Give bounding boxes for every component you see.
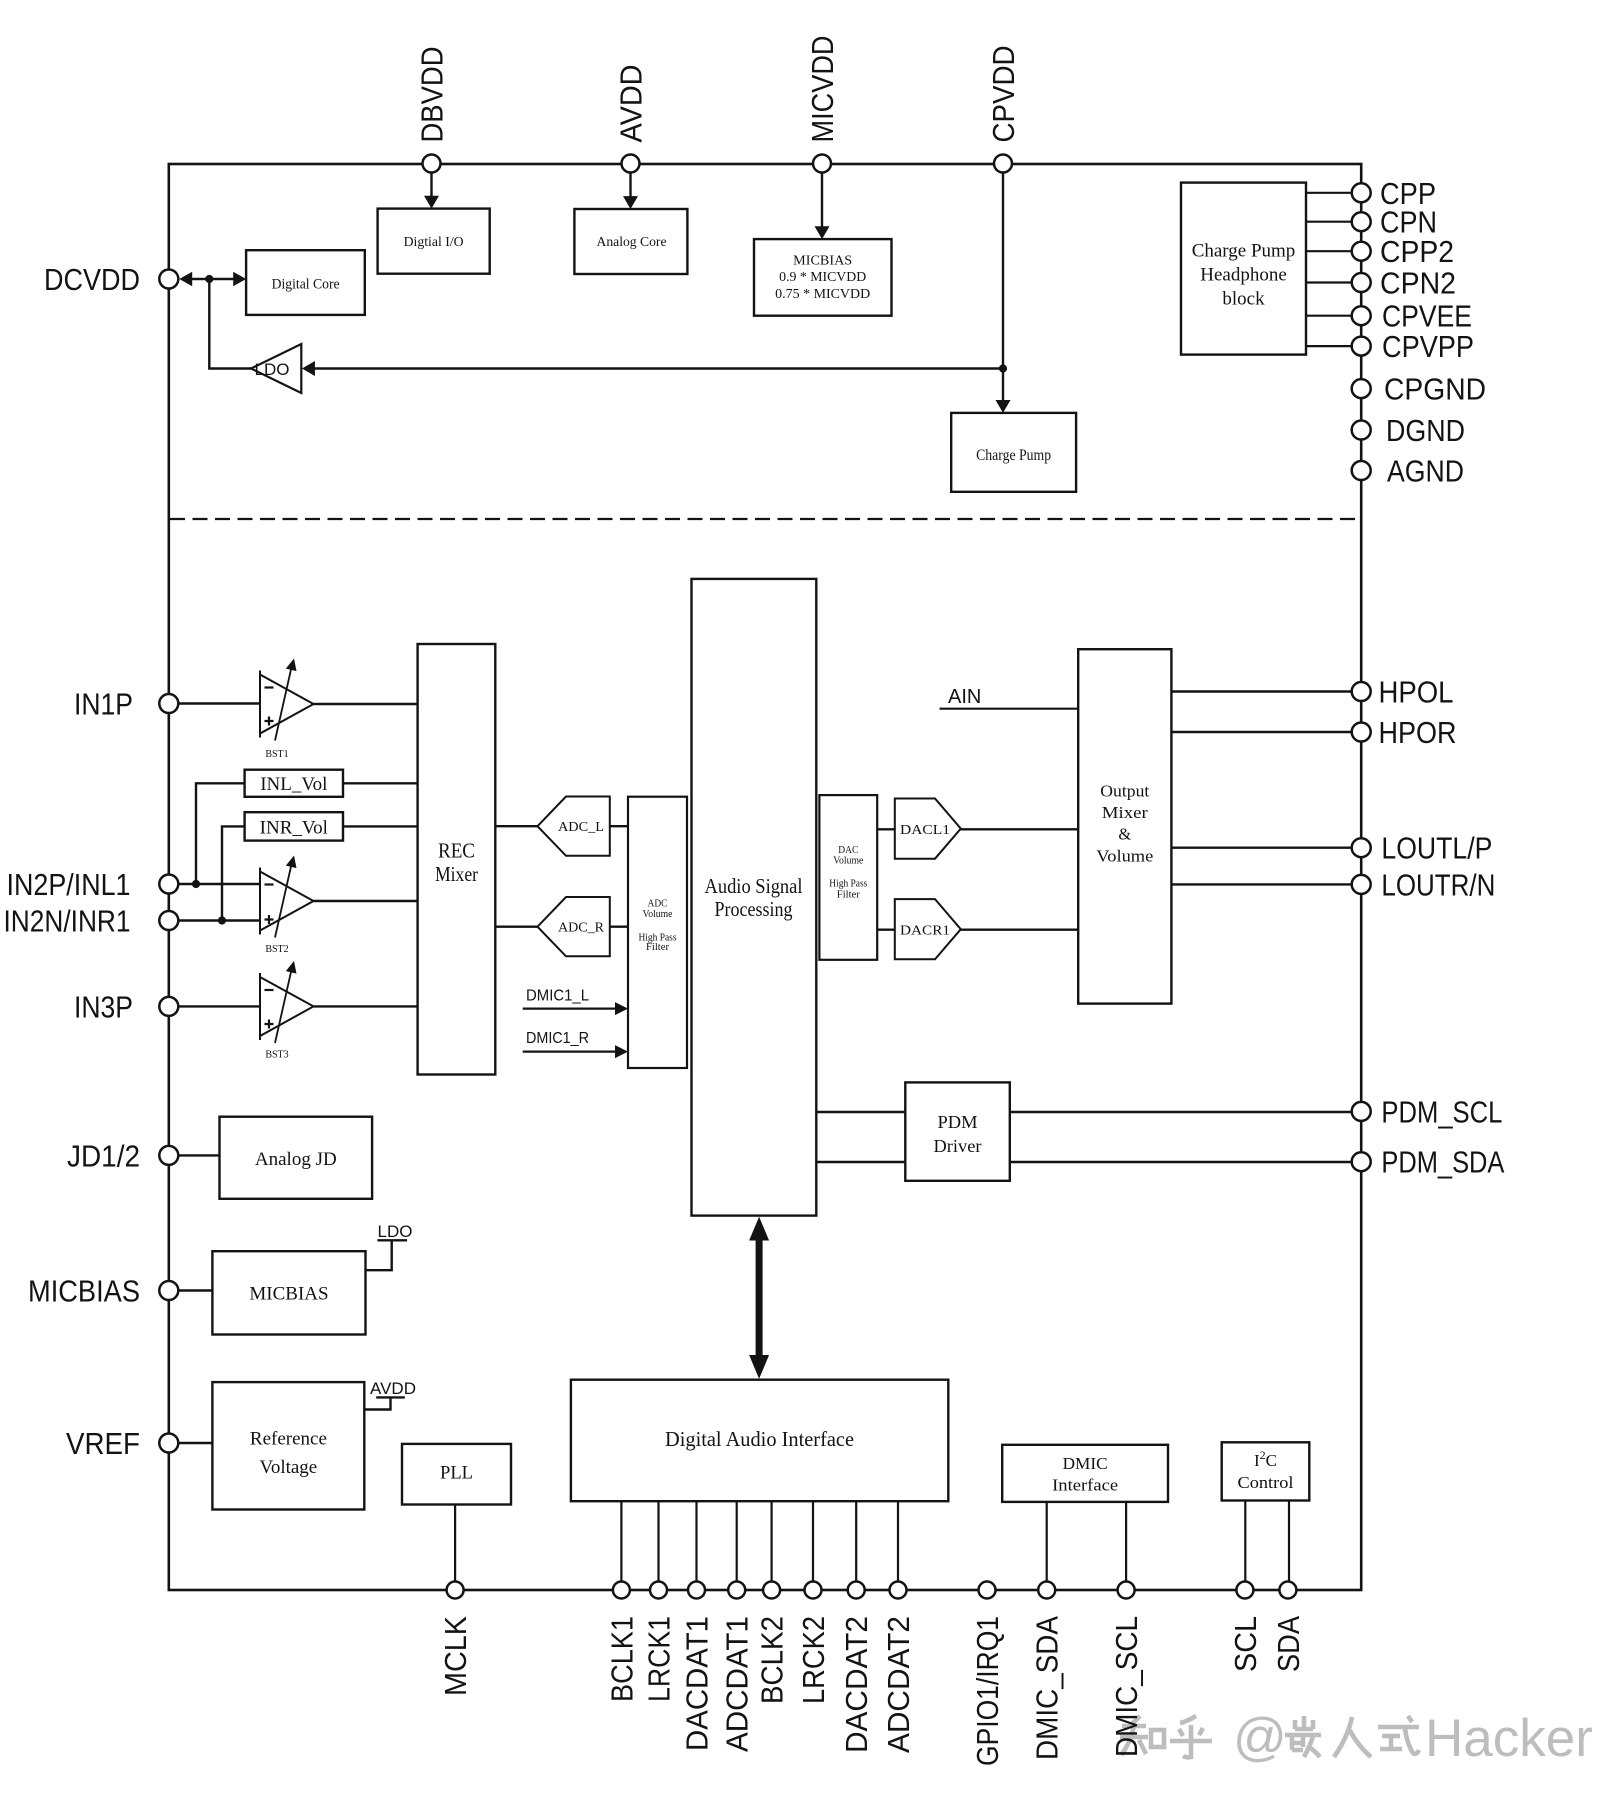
- svg-text:DACDAT1: DACDAT1: [680, 1616, 715, 1751]
- svg-text:Digital Core: Digital Core: [272, 277, 340, 293]
- svg-text:GPIO1/IRQ1: GPIO1/IRQ1: [970, 1616, 1005, 1766]
- svg-text:Audio Signal: Audio Signal: [705, 874, 803, 898]
- svg-text:MICBIAS: MICBIAS: [28, 1274, 140, 1309]
- svg-text:BST1: BST1: [265, 749, 288, 760]
- block Audio Signal Processing: [692, 579, 817, 1216]
- wire INR_Vol to REC Mixer: [343, 825, 418, 827]
- svg-text:DMIC_SDA: DMIC_SDA: [1030, 1616, 1065, 1760]
- wire DMIC Interface to DMIC_SCL: [1125, 1502, 1127, 1581]
- wire PDM Driver to PDM_SDA: [1010, 1161, 1352, 1163]
- svg-text:Reference: Reference: [250, 1429, 327, 1450]
- pin ADCDAT1: [720, 1582, 755, 1753]
- svg-text:PDM: PDM: [938, 1112, 978, 1132]
- svg-text:INL_Vol: INL_Vol: [260, 774, 327, 795]
- svg-text:VREF: VREF: [66, 1426, 140, 1461]
- svg-text:BCLK2: BCLK2: [755, 1616, 790, 1704]
- pin CPVDD: [986, 46, 1021, 173]
- svg-text:AIN: AIN: [948, 686, 981, 708]
- pin JD1/2: [67, 1138, 178, 1173]
- wire DAI to ADCDAT1: [736, 1501, 738, 1581]
- svg-text:Driver: Driver: [934, 1136, 982, 1156]
- bus ASP to DAI double arrow: [749, 1217, 769, 1379]
- svg-text:LRCK2: LRCK2: [796, 1616, 831, 1704]
- wire REC Mixer to ADC_R: [495, 926, 537, 928]
- svg-text:AVDD: AVDD: [370, 1379, 416, 1398]
- svg-text:Output: Output: [1100, 782, 1149, 801]
- svg-text:PDM_SDA: PDM_SDA: [1381, 1145, 1504, 1180]
- block Charge Pump: [951, 413, 1076, 492]
- block Output Mixer and Volume: [1078, 649, 1171, 1003]
- svg-text:DMIC1_L: DMIC1_L: [526, 987, 589, 1004]
- pin VREF: [66, 1426, 178, 1461]
- svg-text:DMIC_SCL: DMIC_SCL: [1109, 1616, 1144, 1757]
- svg-text:IN3P: IN3P: [74, 989, 133, 1024]
- svg-text:MICBIAS: MICBIAS: [249, 1284, 328, 1305]
- wire I2C Control to SDA: [1288, 1501, 1290, 1582]
- svg-text:Control: Control: [1238, 1473, 1294, 1492]
- svg-text:MCLK: MCLK: [438, 1616, 473, 1696]
- svg-text:SDA: SDA: [1271, 1616, 1306, 1672]
- wire DMIC Interface to DMIC_SDA: [1046, 1502, 1048, 1581]
- wire DMIC1_R into ADC Volume: [523, 1045, 628, 1058]
- svg-text:HPOR: HPOR: [1379, 715, 1457, 750]
- svg-text:CPN2: CPN2: [1380, 266, 1456, 301]
- wire Output Mixer to LOUTR/N: [1171, 883, 1352, 885]
- wire INR_Vol to IN2N node: [222, 826, 245, 920]
- gain INL_Vol: [245, 770, 343, 797]
- wire AIN to Output Mixer: [940, 708, 1079, 710]
- wire IN3P to BST3: [178, 1005, 260, 1007]
- pin LOUTL/P: [1352, 831, 1493, 866]
- supply LDO rail on MICBIAS: [366, 1222, 413, 1270]
- block I2C Control: [1222, 1442, 1310, 1500]
- block DMIC Interface: [1002, 1445, 1168, 1502]
- svg-text:0.75 * MICVDD: 0.75 * MICVDD: [775, 286, 870, 301]
- pin IN2N/INR1: [4, 904, 179, 939]
- block REC Mixer: [418, 644, 496, 1075]
- amplifier BST3: [260, 961, 314, 1061]
- digital/analog dashed separator: [170, 518, 1360, 520]
- wire BST1 to REC Mixer: [314, 703, 418, 705]
- pin DCVDD: [44, 262, 178, 297]
- wire Output Mixer to LOUTL/P: [1171, 847, 1352, 849]
- wire PLL to MCLK: [454, 1505, 456, 1582]
- block PLL: [402, 1444, 511, 1505]
- svg-text:Mixer: Mixer: [1102, 803, 1149, 822]
- svg-text:MICBIAS: MICBIAS: [793, 253, 852, 268]
- svg-text:0.9 * MICVDD: 0.9 * MICVDD: [779, 269, 866, 284]
- svg-text:ADCDAT2: ADCDAT2: [881, 1616, 916, 1753]
- converter ADC_R: [538, 897, 610, 956]
- svg-text:BCLK1: BCLK1: [604, 1616, 639, 1702]
- block DAC Volume High Pass Filter: [819, 795, 877, 960]
- wire DAI to LRCK2: [812, 1501, 814, 1581]
- block MICBIAS regulator: [754, 239, 892, 316]
- svg-text:CPGND: CPGND: [1384, 372, 1486, 407]
- wire CPVDD down to Charge Pump with arrowhead: [996, 173, 1011, 413]
- svg-text:Digtial I/O: Digtial I/O: [404, 234, 464, 249]
- wire CPN2: [1306, 281, 1352, 283]
- svg-text:CPVDD: CPVDD: [986, 46, 1021, 143]
- wire LDO output to DCVDD node: [209, 279, 251, 369]
- svg-text:LDO: LDO: [255, 360, 290, 379]
- chip boundary: [169, 164, 1361, 1590]
- pin CPP2: [1352, 234, 1454, 269]
- svg-text:DMIC1_R: DMIC1_R: [526, 1030, 589, 1047]
- wire DCVDD to Digital Core double arrow: [179, 272, 246, 286]
- svg-text:Voltage: Voltage: [260, 1457, 318, 1478]
- pin DMIC_SDA: [1030, 1582, 1065, 1761]
- wire CPVEE: [1306, 315, 1352, 317]
- wire BST2 to REC Mixer: [314, 900, 418, 902]
- wire Output Mixer to HPOL: [1171, 690, 1352, 692]
- svg-text:PLL: PLL: [440, 1463, 473, 1484]
- svg-text:I2C: I2C: [1254, 1448, 1277, 1470]
- converter DACR1: [895, 899, 961, 959]
- pin CPN2: [1352, 266, 1456, 301]
- junction DCVDD/LDO output: [205, 275, 213, 283]
- LDO regulator: [251, 344, 301, 393]
- svg-text:High Pass: High Pass: [829, 879, 867, 890]
- wire DAI to BCLK2: [770, 1501, 772, 1581]
- pin LRCK1: [642, 1582, 677, 1703]
- svg-text:@: @: [1233, 1708, 1287, 1767]
- svg-text:HPOL: HPOL: [1379, 675, 1454, 710]
- svg-text:DMIC: DMIC: [1063, 1454, 1108, 1473]
- wire ASP to PDM Driver lower: [816, 1161, 905, 1163]
- pin LOUTR/N: [1352, 867, 1496, 902]
- svg-text:ADCDAT1: ADCDAT1: [720, 1616, 755, 1752]
- svg-text:DACDAT2: DACDAT2: [839, 1616, 874, 1753]
- wire MICBIAS pin to block: [178, 1289, 212, 1291]
- wire CPN: [1306, 221, 1352, 223]
- wire JD1/2 to Analog JD: [178, 1154, 219, 1156]
- watermark: [1120, 1716, 1419, 1757]
- block PDM Driver: [905, 1082, 1010, 1180]
- wire DAC Volume to DACR1: [877, 929, 895, 931]
- svg-text:block: block: [1222, 288, 1265, 309]
- svg-text:Analog Core: Analog Core: [597, 234, 667, 249]
- block Digtial I/O: [378, 209, 490, 274]
- svg-text:DACL1: DACL1: [900, 822, 950, 837]
- svg-text:ADC_L: ADC_L: [558, 819, 604, 834]
- converter DACL1: [895, 799, 961, 859]
- pin LRCK2: [796, 1582, 831, 1705]
- svg-text:Charge Pump: Charge Pump: [1192, 240, 1296, 261]
- converter ADC_L: [538, 797, 610, 856]
- block Analog Core: [574, 209, 687, 274]
- svg-text:IN2P/INL1: IN2P/INL1: [7, 867, 131, 902]
- svg-text:Filter: Filter: [837, 889, 861, 900]
- wire DACR1 to Output Mixer: [960, 929, 1079, 931]
- svg-text:DBVDD: DBVDD: [415, 47, 450, 143]
- junction IN2N/INR_Vol: [218, 916, 226, 924]
- wire IN2N to BST2 plus: [178, 919, 260, 921]
- svg-text:BST2: BST2: [265, 944, 288, 955]
- wire CPP2: [1306, 250, 1352, 252]
- svg-text:BST3: BST3: [265, 1050, 288, 1061]
- junction IN2P/INL_Vol: [192, 880, 200, 888]
- wire DBVDD to Digital I/O with arrowhead: [424, 173, 439, 209]
- wire INL_Vol to IN2P node: [196, 783, 245, 884]
- svg-text:Mixer: Mixer: [435, 862, 478, 886]
- pin IN1P: [74, 687, 178, 722]
- pin DACDAT1: [680, 1582, 715, 1752]
- svg-text:ADC_R: ADC_R: [558, 920, 604, 935]
- svg-text:Analog JD: Analog JD: [255, 1149, 337, 1170]
- svg-text:Filter: Filter: [646, 942, 670, 953]
- wire I2C Control to SCL: [1244, 1501, 1246, 1582]
- pin MCLK: [438, 1582, 473, 1697]
- svg-text:&: &: [1118, 825, 1131, 844]
- wire DMIC1_L into ADC Volume: [523, 1002, 628, 1015]
- wire VREF to Reference Voltage: [178, 1442, 212, 1444]
- svg-text:SCL: SCL: [1228, 1616, 1263, 1672]
- wire DACL1 to Output Mixer: [960, 828, 1079, 830]
- junction CPVDD/LDO: [999, 364, 1007, 372]
- svg-text:Headphone: Headphone: [1200, 264, 1287, 285]
- svg-text:IN2N/INR1: IN2N/INR1: [4, 904, 131, 939]
- pin DMIC_SCL: [1109, 1582, 1144, 1758]
- pin CPP: [1352, 176, 1436, 211]
- svg-text:Digital Audio Interface: Digital Audio Interface: [665, 1427, 854, 1451]
- svg-text:Charge Pump: Charge Pump: [976, 447, 1051, 464]
- pin ADCDAT2: [881, 1582, 916, 1754]
- svg-text:Hacker: Hacker: [1425, 1709, 1593, 1768]
- wire IN2P to BST2 minus: [178, 883, 260, 885]
- block Digital Audio Interface: [571, 1380, 948, 1502]
- svg-text:Volume: Volume: [833, 856, 864, 867]
- wire DAI to DACDAT1: [695, 1501, 697, 1581]
- svg-text:REC: REC: [438, 838, 475, 862]
- wire CPP: [1306, 192, 1352, 194]
- pin CPN: [1352, 205, 1437, 240]
- pin AGND: [1352, 454, 1464, 489]
- svg-text:JD1/2: JD1/2: [67, 1138, 140, 1173]
- svg-text:LDO: LDO: [378, 1222, 413, 1241]
- wire CPVDD to LDO with arrowhead: [302, 361, 1003, 376]
- pin GPIO1/IRQ1: [970, 1582, 1005, 1767]
- amplifier BST1: [260, 659, 314, 761]
- pin DBVDD: [415, 47, 450, 173]
- wire IN1P to BST1: [178, 702, 260, 704]
- wire Output Mixer to HPOR: [1171, 731, 1352, 733]
- amplifier BST2: [260, 856, 314, 956]
- wire DAI to LRCK1: [657, 1501, 659, 1581]
- svg-text:AGND: AGND: [1387, 454, 1464, 489]
- svg-text:IN1P: IN1P: [74, 687, 133, 722]
- svg-text:DAC: DAC: [838, 845, 858, 856]
- pin MICBIAS: [28, 1274, 178, 1309]
- pin IN3P: [74, 989, 178, 1024]
- pin HPOL: [1352, 675, 1454, 710]
- pin DACDAT2: [839, 1582, 874, 1754]
- wire INL_Vol to REC Mixer: [343, 782, 418, 784]
- svg-text:AVDD: AVDD: [614, 65, 649, 143]
- block Digital Core: [246, 250, 365, 315]
- block Charge Pump Headphone: [1181, 183, 1306, 355]
- svg-text:LRCK1: LRCK1: [642, 1616, 677, 1702]
- block Analog JD: [220, 1117, 373, 1199]
- svg-text:DGND: DGND: [1386, 413, 1465, 448]
- wire ASP to PDM Driver upper: [816, 1111, 905, 1113]
- pin CPVPP: [1352, 329, 1474, 364]
- pin PDM_SCL: [1352, 1094, 1503, 1129]
- svg-text:Processing: Processing: [715, 897, 793, 921]
- supply AVDD rail on Reference Voltage: [364, 1379, 416, 1410]
- svg-text:INR_Vol: INR_Vol: [260, 818, 328, 839]
- svg-text:CPVPP: CPVPP: [1382, 329, 1474, 364]
- block Reference Voltage: [212, 1382, 364, 1509]
- svg-text:LOUTR/N: LOUTR/N: [1381, 867, 1495, 902]
- wire PDM Driver to PDM_SCL: [1010, 1111, 1352, 1113]
- svg-text:PDM_SCL: PDM_SCL: [1381, 1094, 1502, 1129]
- pin MICVDD: [805, 36, 840, 173]
- pin SCL: [1228, 1582, 1263, 1673]
- wire AVDD to Analog Core with arrowhead: [623, 173, 638, 210]
- pin CPVEE: [1352, 299, 1472, 334]
- pin HPOR: [1352, 715, 1457, 750]
- wire CPVPP: [1306, 345, 1352, 347]
- pin BCLK2: [755, 1582, 790, 1705]
- svg-text:Volume: Volume: [643, 909, 674, 920]
- svg-text:DCVDD: DCVDD: [44, 262, 140, 297]
- pin IN2P/INL1: [7, 867, 179, 902]
- svg-text:CPP2: CPP2: [1380, 234, 1454, 269]
- pin CPGND: [1352, 372, 1486, 407]
- svg-text:MICVDD: MICVDD: [805, 36, 840, 143]
- svg-text:Volume: Volume: [1096, 846, 1153, 865]
- wire REC Mixer to ADC_L: [495, 825, 537, 827]
- wire DAI to ADCDAT2: [897, 1501, 899, 1581]
- block MICBIAS: [212, 1251, 365, 1334]
- pin PDM_SDA: [1352, 1145, 1505, 1180]
- svg-text:LOUTL/P: LOUTL/P: [1381, 831, 1492, 866]
- pin AVDD: [614, 65, 649, 173]
- gain INR_Vol: [245, 812, 343, 840]
- svg-text:ADC: ADC: [648, 898, 668, 909]
- svg-text:DACR1: DACR1: [900, 923, 950, 938]
- wire ADC_R to ADC Volume: [610, 926, 628, 928]
- wire ADC_L to ADC Volume: [610, 825, 628, 827]
- wire DAC Volume to DACL1: [877, 828, 895, 830]
- wire DAI to DACDAT2: [855, 1501, 857, 1581]
- block ADC Volume High Pass Filter: [628, 797, 687, 1068]
- pin DGND: [1352, 413, 1465, 448]
- svg-text:Interface: Interface: [1052, 1475, 1118, 1494]
- pin BCLK1: [604, 1582, 639, 1703]
- wire BST3 to REC Mixer: [314, 1005, 418, 1007]
- wire DAI to BCLK1: [620, 1501, 622, 1581]
- pin SDA: [1271, 1582, 1306, 1673]
- wire MICVDD to MICBIAS block with arrowhead: [815, 173, 830, 240]
